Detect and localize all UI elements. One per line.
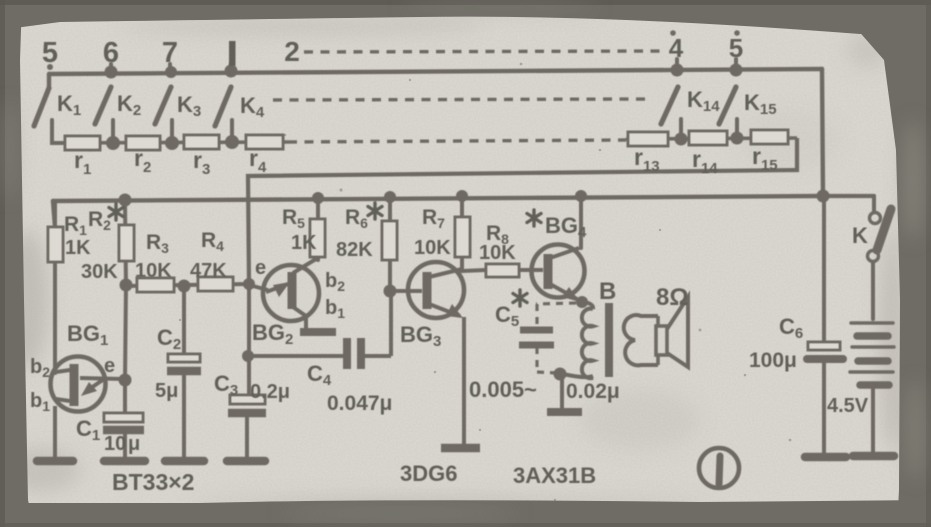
svg-text:47K: 47K: [190, 260, 227, 282]
svg-text:10: 10: [104, 433, 126, 455]
svg-text:e: e: [255, 257, 266, 279]
svg-text:82K: 82K: [336, 239, 373, 261]
svg-text:BT33×2: BT33×2: [112, 469, 194, 495]
svg-text:7: 7: [162, 37, 178, 69]
svg-text:5: 5: [42, 37, 58, 69]
svg-text:0.005~: 0.005~: [469, 377, 537, 402]
svg-text:0.047μ: 0.047μ: [327, 392, 392, 415]
svg-text:0.02μ: 0.02μ: [566, 380, 620, 403]
svg-text:8Ω: 8Ω: [656, 284, 689, 311]
svg-text:100μ: 100μ: [749, 349, 797, 372]
svg-text:10K: 10K: [414, 237, 451, 259]
svg-text:30K: 30K: [81, 261, 118, 283]
svg-text:3AX31B: 3AX31B: [513, 463, 596, 488]
svg-text:6: 6: [103, 37, 119, 69]
svg-text:1K: 1K: [65, 237, 91, 259]
svg-text:e: e: [104, 355, 115, 377]
svg-text:10K: 10K: [479, 242, 516, 264]
svg-text:2: 2: [284, 36, 300, 67]
svg-text:1K: 1K: [291, 232, 317, 254]
svg-text:5: 5: [729, 33, 743, 63]
svg-text:K: K: [852, 223, 868, 248]
svg-text:3DG6: 3DG6: [400, 461, 457, 486]
svg-text:10K: 10K: [135, 260, 172, 282]
svg-text:B: B: [599, 278, 616, 305]
svg-text:0.2μ: 0.2μ: [250, 381, 290, 403]
svg-text:4: 4: [669, 33, 684, 63]
svg-text:5μ: 5μ: [155, 380, 178, 402]
svg-text:μ: μ: [128, 433, 140, 455]
svg-text:4.5V: 4.5V: [827, 395, 869, 417]
